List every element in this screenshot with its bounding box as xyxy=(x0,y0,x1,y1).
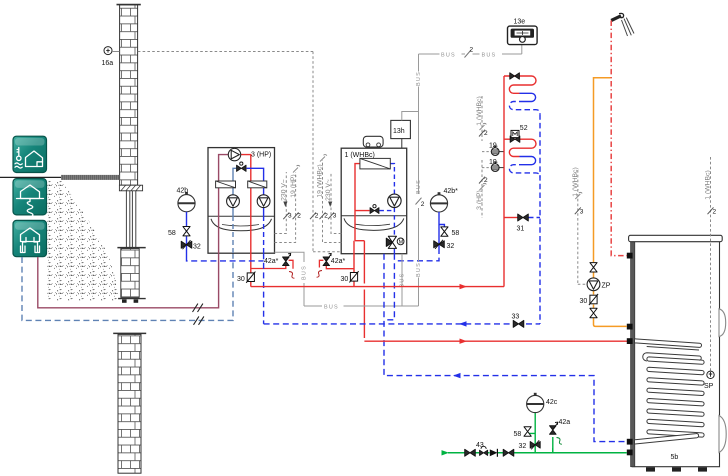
boiler internal return blue dashed xyxy=(379,164,394,254)
storage sensor SP with cable xyxy=(704,157,717,390)
svg-text:30: 30 xyxy=(237,276,245,283)
svg-text:32: 32 xyxy=(447,243,455,250)
expansion vessel 42b* xyxy=(430,188,458,212)
svg-text:42b*: 42b* xyxy=(444,188,459,195)
chimney upper brick column xyxy=(117,5,141,186)
cold water line green xyxy=(442,413,627,456)
heating return riser blue dashed xyxy=(539,114,541,324)
flow meter 30 (HP) xyxy=(237,272,255,284)
svg-text:230 V~: 230 V~ xyxy=(325,179,332,201)
svg-text:42a*: 42a* xyxy=(331,258,346,265)
svg-text:32: 32 xyxy=(193,244,201,251)
svg-text:1 (WHBc): 1 (WHBc) xyxy=(476,96,483,125)
shower xyxy=(611,13,634,36)
control unit 13h xyxy=(391,120,411,148)
icon tile: outdoor air source xyxy=(13,136,47,172)
thermostatic actuator 19 circuit 2 xyxy=(482,159,504,172)
svg-text:2: 2 xyxy=(470,47,474,54)
BUS line to room controller 13e xyxy=(419,45,522,59)
brine return line (slate blue dashed) from borehole to HP xyxy=(22,253,233,320)
motor zone valve 52 xyxy=(510,125,528,142)
icon tile: ground collector source xyxy=(13,179,47,217)
BUS cable from HP xyxy=(275,252,308,306)
svg-text:13e: 13e xyxy=(514,19,526,26)
brine supply line (maroon) from borehole to HP xyxy=(38,253,219,308)
flue pipe below chimney xyxy=(126,191,135,248)
svg-text:42b: 42b xyxy=(177,188,189,195)
cable 19 (HP) xyxy=(275,165,302,242)
cable 230V to boiler xyxy=(325,172,341,234)
shut-off valve 32 (HP side) xyxy=(181,240,201,250)
circuit 1 shut-off valve xyxy=(510,73,520,79)
svg-text:2: 2 xyxy=(315,213,319,220)
heating circuit supply riser red xyxy=(503,76,505,287)
room controller 13e xyxy=(508,19,538,45)
DHW cylinder 5b body xyxy=(629,235,723,466)
svg-text:3 (HP): 3 (HP) xyxy=(251,152,271,159)
drain valve 58 (cold water) xyxy=(514,427,532,438)
svg-text:19 (HP): 19 (HP) xyxy=(290,174,297,197)
HP left heat exchanger xyxy=(216,181,236,188)
HP right circulation pump xyxy=(257,195,270,208)
heat pump unit 3 (HP) box xyxy=(208,148,275,254)
heating return main blue dashed xyxy=(264,253,540,324)
gas boiler unit 1 (WHBc) box xyxy=(341,148,407,254)
svg-text:58: 58 xyxy=(514,431,522,438)
basement wall column (mid) xyxy=(117,248,145,303)
svg-text:ZP: ZP xyxy=(602,283,611,290)
svg-text:M: M xyxy=(399,240,404,246)
cable 19 (WHBc) xyxy=(317,155,342,243)
thermostatic actuator 19 circuit 1 xyxy=(482,142,504,155)
svg-text:230 V~: 230 V~ xyxy=(280,179,287,201)
HP internal brine return slate xyxy=(233,168,236,216)
ground soil stipple region xyxy=(48,180,119,300)
svg-text:3: 3 xyxy=(580,209,584,216)
svg-text:BUS: BUS xyxy=(416,71,422,86)
HP internal valve xyxy=(237,162,247,171)
flow meter 30 (boiler) xyxy=(341,271,359,283)
svg-text:1 (WHBc): 1 (WHBc) xyxy=(345,152,375,159)
svg-text:30: 30 xyxy=(580,298,588,305)
pressure reducer 43 xyxy=(476,442,488,455)
svg-text:2: 2 xyxy=(484,177,488,184)
svg-text:3 (HP): 3 (HP) xyxy=(476,190,483,210)
control cable to ZP xyxy=(572,167,587,284)
heating circuit 2 serpentine xyxy=(504,139,540,177)
check valve xyxy=(490,449,498,457)
circulation shut-off valve lower xyxy=(590,308,597,317)
sensor 16a xyxy=(102,47,114,67)
circulation pump ZP xyxy=(587,278,611,291)
safety valve 42a* (boiler) with drain xyxy=(317,253,354,277)
svg-text:43: 43 xyxy=(476,442,484,449)
safety valve 42a with drain xyxy=(550,419,571,444)
heat pump main flow line red xyxy=(251,284,504,289)
svg-text:19 (WHBc): 19 (WHBc) xyxy=(317,164,324,197)
tank connector circulation xyxy=(627,324,633,330)
HP internal cold side blue xyxy=(247,168,264,216)
cable 230V to HP xyxy=(275,172,293,234)
tank connector coil in xyxy=(627,338,633,344)
svg-text:19: 19 xyxy=(489,159,497,166)
svg-text:13h: 13h xyxy=(393,128,405,135)
svg-text:58: 58 xyxy=(452,230,460,237)
3-way diverter valve with motor M xyxy=(386,236,404,248)
tank return flow arrow xyxy=(453,373,461,378)
svg-text:31: 31 xyxy=(517,226,525,233)
HP left circulation pump xyxy=(227,195,240,208)
tank connector coil out xyxy=(627,439,633,445)
safety group shut-off 32 xyxy=(519,440,541,450)
svg-text:52: 52 xyxy=(520,125,528,132)
42b connection line blue xyxy=(187,212,264,261)
boiler flue fan on top xyxy=(363,136,383,147)
svg-text:58: 58 xyxy=(168,230,176,237)
svg-text:3: 3 xyxy=(288,213,292,220)
svg-text:2: 2 xyxy=(324,213,328,220)
BUS cable bus bar HP to boiler to 13h xyxy=(304,54,425,311)
HP internal brine pipe (red warm side) xyxy=(241,155,251,287)
DHW circulation pipe orange xyxy=(594,78,627,327)
ground line xyxy=(0,175,120,180)
svg-text:42a: 42a xyxy=(559,419,571,426)
svg-text:33: 33 xyxy=(512,314,520,321)
bypass valve 31 xyxy=(504,214,540,233)
HP right heat exchanger xyxy=(248,181,267,188)
pipe break marks // xyxy=(193,304,204,325)
svg-text:2: 2 xyxy=(421,201,425,208)
tank connector DHW out xyxy=(627,253,633,259)
svg-text:16a: 16a xyxy=(102,60,114,67)
svg-text:BUS: BUS xyxy=(482,52,497,58)
tank connector cold water xyxy=(627,450,633,456)
svg-text:BUS: BUS xyxy=(441,52,456,58)
HP internal brine pipe maroon xyxy=(219,155,229,254)
svg-text:BUS: BUS xyxy=(400,273,406,288)
safety valve 42a* (HP) with drain xyxy=(251,253,295,278)
svg-text:32: 32 xyxy=(519,443,527,450)
expansion vessel 42c xyxy=(527,393,558,413)
svg-text:BUS: BUS xyxy=(416,179,422,194)
svg-text:42c: 42c xyxy=(546,399,558,406)
boiler heat exchanger xyxy=(360,158,390,169)
svg-text:SP: SP xyxy=(704,383,714,390)
chimney base slab (hatched) xyxy=(119,185,142,191)
svg-text:2: 2 xyxy=(297,213,301,220)
svg-text:42a*: 42a* xyxy=(264,258,279,265)
icon tile: borehole source xyxy=(13,220,47,256)
DHW pipe red dash-dot xyxy=(611,21,627,256)
boiler return drop pipes blue dashed xyxy=(384,254,627,442)
expansion vessel 42b xyxy=(177,188,196,212)
boiler internal supply pipe red xyxy=(354,164,370,338)
tank internal coil xyxy=(635,339,705,444)
42b* connection blue xyxy=(394,212,444,261)
svg-text:19: 19 xyxy=(489,142,497,149)
svg-text:BUS: BUS xyxy=(302,265,308,280)
shut-off valve 33 xyxy=(512,314,524,328)
tank hand hole flanges xyxy=(719,309,726,453)
shut-off valve 32 (boiler side) xyxy=(434,240,455,250)
basement wall column (bottom) xyxy=(113,333,146,473)
svg-text:3: 3 xyxy=(333,213,337,220)
flow meter 30 (circulation) xyxy=(580,294,599,305)
return flow arrow xyxy=(459,321,467,326)
drain valve 58 (HP side) xyxy=(168,227,190,237)
shut-off valve cold water inlet xyxy=(465,449,476,456)
svg-text:2: 2 xyxy=(484,130,488,137)
circulation shut-off valve upper xyxy=(590,263,597,272)
boiler bypass valve xyxy=(370,205,379,214)
heating circuit 1 serpentine xyxy=(504,76,540,114)
svg-text:BUS: BUS xyxy=(416,262,422,277)
tank feet xyxy=(646,467,707,471)
svg-text:2: 2 xyxy=(713,209,717,216)
shut-off valve before tank xyxy=(503,449,514,456)
dashed line from 16a to WHBc xyxy=(112,52,341,252)
BUS cable from boiler xyxy=(400,254,406,306)
slash mark on 16a cable xyxy=(310,212,319,219)
svg-text:BUS: BUS xyxy=(324,305,339,311)
control cable to heating circuits xyxy=(476,96,488,218)
boiler pump xyxy=(388,194,401,207)
tank charge line red xyxy=(364,339,630,344)
svg-text:5b: 5b xyxy=(671,454,679,461)
HP top circulation pump xyxy=(228,148,240,160)
svg-text:1 (WHBc): 1 (WHBc) xyxy=(705,170,712,199)
svg-text:30: 30 xyxy=(341,276,349,283)
drain valve 58 (boiler side) xyxy=(441,227,460,237)
svg-text:1 (WHBc): 1 (WHBc) xyxy=(572,167,579,196)
